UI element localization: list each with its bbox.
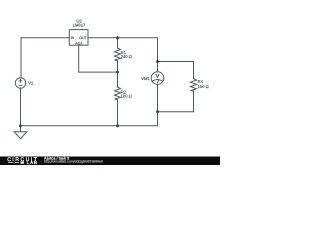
node junction top rail / R1	[116, 36, 119, 39]
voltmeter VM1 circle	[151, 72, 164, 85]
wire ADJ pin to R1/R2 junction	[79, 45, 118, 72]
V1 minus sign	[19, 85, 23, 87]
wire R2 bottom stub	[117, 100, 119, 126]
svg-text:100 Ω: 100 Ω	[121, 94, 132, 99]
node junction VM1 / R4 top	[156, 60, 159, 63]
node junction VM1 / R4 bottom	[156, 110, 159, 113]
resistor R4 100 ohm zigzag	[191, 79, 197, 92]
svg-text:100 Ω: 100 Ω	[198, 84, 209, 89]
svg-text:IN: IN	[71, 36, 75, 40]
footer CircuitLab logo dashes	[8, 161, 24, 163]
voltmeter VM1 scale arc	[152, 80, 162, 82]
footer bar	[0, 157, 220, 166]
svg-text:V1: V1	[28, 81, 34, 86]
voltage source V1 circle	[15, 78, 25, 88]
svg-text:OUT: OUT	[79, 36, 87, 40]
wire branch to R4 top	[158, 62, 194, 79]
resistor R1 240 ohm zigzag	[115, 48, 121, 61]
wire junction to R2 top	[117, 72, 119, 87]
wire R1 bottom to junction	[117, 61, 119, 72]
node junction R2 bottom rail	[116, 124, 119, 127]
voltmeter VM1 needle	[158, 80, 160, 83]
svg-text:240 Ω: 240 Ω	[121, 54, 132, 59]
node junction ground	[19, 124, 22, 127]
svg-text:LAB: LAB	[27, 160, 38, 165]
wire top-left vertical (V1 top to top rail)	[20, 38, 22, 78]
wire bottom rail	[21, 125, 158, 127]
svg-text:http://circuitlab.com/c/32gt93: http://circuitlab.com/c/32gt9357s886e8	[44, 160, 103, 164]
wire VM1 bottom	[157, 84, 159, 126]
svg-text:VM1: VM1	[141, 76, 150, 81]
V1 plus sign	[19, 79, 23, 86]
svg-text:ADJ: ADJ	[75, 41, 82, 45]
ground symbol	[20, 126, 22, 132]
wire R1 top stub	[117, 38, 119, 48]
voltmeter V letter	[156, 74, 159, 78]
op-amp U2 LM317 regulator box	[69, 30, 88, 46]
wire R4 bottom branch	[158, 91, 194, 112]
resistor R2 100 ohm zigzag	[115, 87, 121, 100]
node junction ADJ / R1 / R2	[116, 71, 119, 74]
wire V1 bottom	[20, 88, 22, 126]
wire top rail right (LM317 OUT to right corner, down to VM1)	[88, 38, 158, 72]
svg-text:LM317: LM317	[73, 22, 86, 27]
wire top rail left (corner to LM317 IN)	[21, 37, 69, 39]
